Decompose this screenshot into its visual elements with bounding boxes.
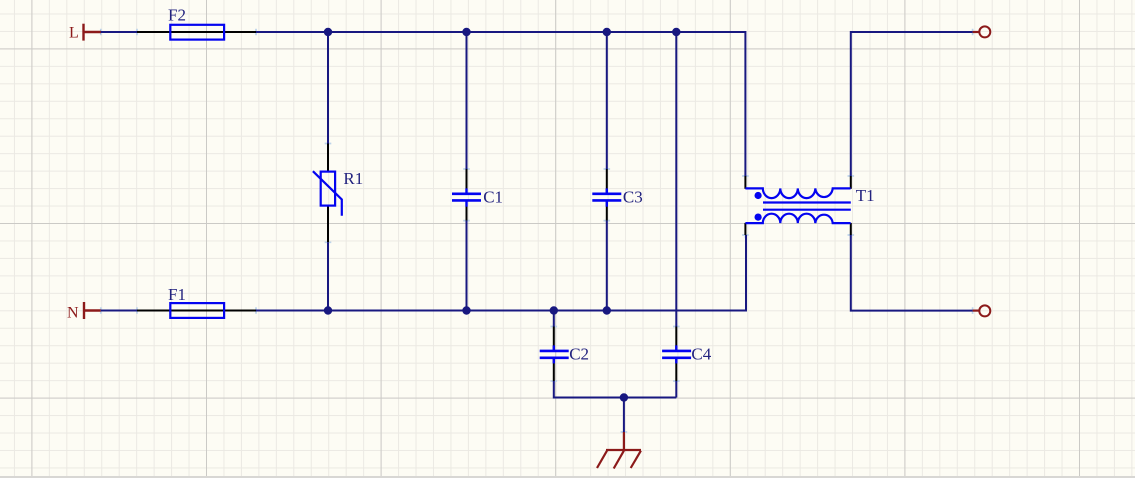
wire C2 bottom [554,381,624,398]
wire bottom rail C3 to transformer left bottom [607,235,746,311]
svg-text:L: L [69,25,79,42]
wire bottom rail C2 to C3 [554,310,607,312]
junction top R1 [324,28,332,36]
wire bottom rail R1 to C1 [328,310,467,312]
capacitor C1 [452,169,503,221]
wire C4 top (crosses N rail) [675,32,677,327]
wire C3 top [606,32,608,169]
wire transformer top right to output [851,32,973,176]
wire ground node to C4 [624,397,676,399]
capacitor C4 [662,327,712,382]
varistor R1 [313,144,363,243]
svg-text:F1: F1 [168,285,186,304]
junction top C4 branch [672,28,680,36]
fuse F1 [137,285,256,318]
port N [67,302,101,322]
wire C1 top [466,32,468,169]
svg-text:C4: C4 [691,345,711,364]
junction top C1 [462,28,470,36]
capacitor C3 [592,169,642,221]
svg-text:C1: C1 [483,187,503,206]
junction top C3 [603,28,611,36]
transformer T1 [745,176,874,235]
fuse F2 [137,5,256,39]
wire R1 bottom [327,242,329,310]
wire top rail R1 to C1 [328,31,467,33]
capacitor C2 [540,327,589,382]
svg-text:N: N [67,305,79,322]
wire top rail C1 to C3 [467,31,607,33]
terminal bottom output [973,305,991,316]
wire C4 bottom [675,381,677,398]
junction bottom R1 [324,306,332,314]
junction ground node [620,393,628,401]
svg-text:T1: T1 [856,186,875,205]
junction bottom C2 branch [550,306,558,314]
wire F2 to junction R1 [256,31,328,33]
svg-text:F2: F2 [168,5,186,24]
svg-text:C3: C3 [623,187,643,206]
port L [69,24,101,42]
wire top rail to transformer left top [676,32,745,176]
wire C3 bottom [606,221,608,311]
wire C2 top [553,311,555,327]
wire L to F2 [101,31,137,33]
wire R1 top [327,32,329,144]
wire ground stem [623,398,625,433]
svg-text:R1: R1 [343,169,363,188]
terminal top output [973,26,991,37]
wire bottom rail C1 to C2 branch [467,310,554,312]
wire F1 to junction R1 bottom [256,310,328,312]
junction bottom C1 [462,306,470,314]
svg-text:C2: C2 [569,345,589,364]
wire top rail C3 to C4 branch [607,31,677,33]
wire N to F1 [101,310,137,312]
wire C1 bottom [466,221,468,311]
wire transformer bottom right to output [851,235,973,311]
junction bottom C3 [603,306,611,314]
ground symbol [597,432,641,469]
